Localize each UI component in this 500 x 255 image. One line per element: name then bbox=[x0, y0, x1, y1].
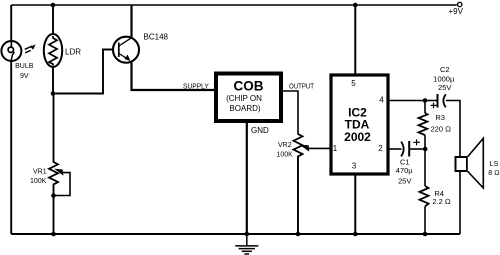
wire C2 to speaker bbox=[446, 101, 460, 157]
potentiometer VR1 100K bbox=[49, 162, 70, 196]
svg-text:COB: COB bbox=[234, 79, 264, 94]
svg-text:470µ: 470µ bbox=[396, 166, 414, 175]
svg-text:1000µ: 1000µ bbox=[433, 74, 455, 83]
svg-text:C2: C2 bbox=[440, 65, 450, 74]
svg-text:LS: LS bbox=[490, 161, 499, 168]
wire IC2 pin4 to R3/C2 node bbox=[390, 100, 426, 102]
svg-text:+9V: +9V bbox=[449, 7, 464, 16]
svg-text:4: 4 bbox=[379, 95, 384, 104]
svg-text:5: 5 bbox=[351, 79, 356, 88]
wire IC2 pin5 to top rail bbox=[354, 5, 356, 74]
wire C1 to node bbox=[409, 148, 425, 150]
svg-text:1: 1 bbox=[333, 144, 338, 153]
loudspeaker LS 8 ohm bbox=[456, 138, 484, 188]
junction dot pin2 node bbox=[423, 147, 428, 152]
svg-text:100K: 100K bbox=[277, 151, 294, 158]
svg-text:TDA: TDA bbox=[345, 117, 370, 131]
svg-text:3: 3 bbox=[352, 162, 357, 171]
svg-text:BULB: BULB bbox=[15, 63, 34, 70]
svg-text:25V: 25V bbox=[398, 177, 411, 186]
wire IC2 pin3 to bottom rail bbox=[354, 175, 356, 234]
bulb BULB 9V bbox=[1, 41, 21, 61]
svg-text:VR2: VR2 bbox=[278, 142, 292, 149]
wire IC2 pin2 to C1 bbox=[390, 148, 402, 150]
svg-text:OUTPUT: OUTPUT bbox=[289, 81, 314, 90]
IC2 TDA2002 box bbox=[331, 75, 388, 174]
ground symbol bbox=[235, 234, 258, 254]
resistor R4 2.2 ohm bbox=[420, 186, 429, 207]
wire collector to top rail bbox=[130, 5, 132, 38]
svg-text:SUPPLY: SUPPLY bbox=[183, 81, 209, 90]
svg-text:2.2 Ω: 2.2 Ω bbox=[432, 197, 451, 206]
junction dot VR1 wiper bbox=[51, 193, 56, 198]
wire LDR branch vertical bbox=[52, 5, 54, 94]
svg-text:(CHIP ON: (CHIP ON bbox=[226, 94, 262, 103]
svg-text:25V: 25V bbox=[438, 83, 451, 92]
junction dot rail VR2 bbox=[296, 232, 301, 237]
svg-text:VR1: VR1 bbox=[33, 168, 47, 175]
junction dot LDR/base bbox=[51, 91, 56, 96]
capacitor C2 1000u 25V bbox=[431, 94, 446, 108]
junction dot top rail LDR bbox=[51, 3, 56, 8]
potentiometer VR2 100K bbox=[294, 134, 330, 157]
svg-text:100K: 100K bbox=[30, 178, 47, 185]
svg-text:220 Ω: 220 Ω bbox=[431, 125, 452, 134]
svg-text:GND: GND bbox=[251, 126, 269, 135]
wire base connection (LDR junction to transistor base) bbox=[53, 50, 114, 94]
wire VR1 branch (junction to VR1 and to bottom rail) bbox=[53, 94, 55, 235]
wire emitter to COB SUPPLY bbox=[132, 62, 215, 91]
transistor Q1 BC148 bbox=[113, 37, 139, 63]
LDR bbox=[44, 34, 62, 67]
svg-text:C1: C1 bbox=[400, 157, 410, 166]
wire node to R4 top bbox=[424, 149, 426, 186]
junction dot rail VR1 bbox=[51, 232, 56, 237]
terminal +9V open circle bbox=[458, 2, 462, 6]
svg-text:BC148: BC148 bbox=[144, 33, 169, 42]
junction dot rail GND bbox=[245, 232, 250, 237]
junction dot rail pin3 bbox=[353, 232, 358, 237]
wire R3 bottom to node bbox=[424, 135, 426, 149]
junction dot top rail pin5 bbox=[353, 3, 358, 8]
junction dot pin4 node bbox=[423, 98, 428, 103]
wire speaker to bottom rail bbox=[459, 172, 461, 234]
svg-text:R3: R3 bbox=[435, 113, 445, 122]
svg-text:BOARD): BOARD) bbox=[229, 104, 260, 113]
svg-text:2: 2 bbox=[378, 144, 383, 153]
svg-text:9V: 9V bbox=[20, 73, 29, 80]
wire COB output to VR2 bbox=[283, 91, 298, 135]
bulb light rays arrow bbox=[25, 45, 35, 52]
svg-text:LDR: LDR bbox=[65, 48, 81, 57]
capacitor C1 470u 25V bbox=[401, 139, 420, 156]
svg-text:2002: 2002 bbox=[344, 130, 371, 144]
wire bottom rail bbox=[11, 233, 460, 235]
wire top rail +9V bbox=[11, 4, 457, 6]
wire COB GND to ground rail bbox=[246, 123, 248, 234]
svg-text:8 Ω: 8 Ω bbox=[488, 170, 499, 177]
junction dot rail R4 bbox=[423, 232, 428, 237]
resistor R3 220 ohm bbox=[419, 113, 428, 135]
wire node to C2 bbox=[425, 100, 438, 102]
wire left vertical (bulb branch) bbox=[10, 5, 12, 234]
wire R4 bottom to rail bbox=[424, 207, 426, 235]
wire node to R3 top bbox=[424, 101, 426, 114]
wire VR2 bottom to rail bbox=[297, 157, 299, 235]
COB box (CHIP ON BOARD) bbox=[216, 74, 281, 122]
